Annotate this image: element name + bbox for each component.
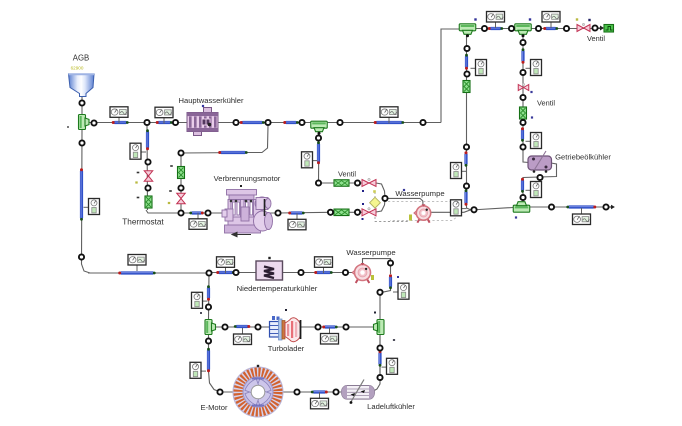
svg-text:Ventil: Ventil [338, 170, 356, 179]
sensor box S9 [323, 267, 325, 273]
svg-text:Ventil: Ventil [537, 99, 555, 108]
wire pinkX row1 out curve [376, 183, 385, 198]
node N9 [420, 120, 425, 125]
marker olive therm col2 [168, 202, 170, 204]
wire riser bottom to T2b left arm [467, 208, 514, 211]
svg-text:Verbrennungsmotor: Verbrennungsmotor [214, 174, 281, 183]
node N13 [564, 26, 569, 31]
valve green GV1 riser [463, 81, 470, 93]
node N29 [79, 140, 84, 145]
node N54 [355, 210, 360, 215]
marker tick right of T3 [393, 339, 395, 341]
svg-text:Wasserpumpe: Wasserpumpe [346, 248, 395, 257]
node N36 [377, 290, 382, 295]
svg-text:Getriebeölkühler: Getriebeölkühler [555, 153, 611, 162]
marker blue diamond T2 [529, 18, 531, 20]
svg-text:E-Motor: E-Motor [200, 403, 227, 412]
pipe PV11 turbo branch [207, 287, 210, 299]
sensor box S6 [581, 208, 583, 214]
pipe P11 NT row [316, 271, 331, 274]
heat exchanger Hauptwasserkuehler [204, 108, 212, 115]
svg-text:Niedertemperaturkühler: Niedertemperaturkühler [237, 284, 318, 293]
marker olive therm col1 [135, 181, 137, 183]
node N2 [91, 120, 96, 125]
wire turbo branch column x=208.5 [208, 273, 211, 319]
wire engine top branch horizontal y=152.5 [181, 152, 248, 155]
marker arrow therm col2 b [169, 190, 172, 192]
valve green GVH1 row1 [334, 180, 349, 187]
node N43 [377, 375, 382, 380]
sensor box S5 [550, 22, 552, 28]
sensor box S3 [388, 117, 390, 123]
svg-text:62900: 62900 [71, 66, 84, 71]
node N6 [265, 120, 270, 125]
node N15 [464, 46, 469, 51]
node N42 [377, 345, 382, 350]
node N49 [145, 185, 150, 190]
pipe P9 bottom feed [120, 271, 154, 274]
wire engine bottom line y=213 [146, 210, 277, 213]
marker blue square T2b [515, 216, 517, 218]
node N19 [471, 207, 476, 212]
junction T5 engine bypass [311, 121, 328, 128]
pipe PV5 right column [521, 129, 524, 140]
node N28 [603, 204, 608, 209]
pipe P4 main line [285, 121, 297, 124]
sensor box SV12 [201, 370, 206, 372]
marker blue diamond T1 [474, 18, 476, 20]
sensor box SV8 [141, 151, 146, 153]
wire thermostat column x=147.5 [146, 126, 149, 210]
node N58 [382, 196, 387, 201]
marker blue square right col b [531, 116, 533, 118]
marker dot turbo row [374, 312, 376, 314]
sensor box SV6 [526, 189, 531, 191]
node N33 [298, 270, 303, 275]
marker blue sq row1 [362, 190, 364, 192]
node N21 [520, 70, 525, 75]
wire T2b right arm line y=207 [530, 206, 608, 208]
wire pump1 outlet to riser junction [431, 210, 472, 213]
node N16 [464, 71, 469, 76]
node N44 [206, 338, 211, 343]
pump Wasserpumpe 1 [414, 210, 418, 216]
marker olive pump1 [409, 215, 412, 221]
node N25 [537, 175, 542, 180]
node N52 [275, 210, 280, 215]
wire valve row1 segment [319, 182, 362, 184]
sensor box S4 [495, 22, 497, 28]
node N56 [316, 180, 321, 185]
sensor box S1 [118, 117, 120, 123]
sensor box S14 [197, 213, 199, 219]
svg-text:Ventil: Ventil [587, 34, 605, 43]
node N23 [520, 120, 525, 125]
wire main top line y=123 [87, 122, 441, 124]
marker blue diamond ventil TR [588, 19, 590, 21]
sensor box SV5 [526, 140, 531, 142]
wire AGB tank to junction [81, 96, 83, 114]
marker blue sq ventil row1 [397, 276, 399, 278]
node N26 [520, 195, 525, 200]
pipe PV1 riser below T1 [465, 56, 468, 69]
marker diamond above NT-cooler [268, 257, 270, 259]
marker olive square ventil TR [576, 18, 578, 20]
node N31 [206, 270, 211, 275]
sensor box S11 [329, 328, 331, 334]
turbocharger Turbolader [270, 322, 280, 338]
marker olive diamond row1 [373, 190, 376, 193]
svg-text:Thermostat: Thermostat [122, 218, 164, 227]
pipe P13 turbo row [324, 325, 336, 328]
wire riser right from main line to T1 [441, 29, 460, 123]
sensor box SV2 [462, 170, 467, 172]
valve green GVH2 row2 [334, 209, 349, 216]
pipe PV6 oil cooler drop [521, 180, 524, 192]
wire T4 bottom stem [208, 334, 210, 349]
sensor box SV11 [203, 300, 208, 302]
node N39 [255, 324, 260, 329]
sensor box SV13 [382, 366, 387, 368]
node N57 [355, 180, 360, 185]
valve pink PX3 right column [518, 85, 523, 91]
sensor box S12 [319, 392, 321, 398]
wire oil cooler return loop [523, 163, 557, 204]
wire top-right header y=28.5 [475, 28, 602, 30]
pipe P2 main line [158, 121, 172, 124]
electric motor E-Motor [233, 367, 283, 417]
pipe P5 main line long [376, 121, 403, 124]
node N53 [328, 210, 333, 215]
signal dashed diamond top [374, 192, 376, 198]
svg-text:Wasserpumpe: Wasserpumpe [395, 189, 444, 198]
pipe PV13 cooler return riser [378, 352, 381, 365]
sensor box S7 [136, 265, 138, 271]
pipe PV8 thermostat column [146, 131, 149, 149]
pipe PV4 right column below T2 [521, 50, 524, 62]
junction T-AGB [79, 115, 86, 130]
node N20 [520, 40, 525, 45]
svg-text:Turbolader: Turbolader [268, 344, 305, 353]
controller yellow diamond [370, 197, 381, 208]
pipe PV12 e-motor branch [207, 350, 210, 371]
svg-text:Ladeluftkühler: Ladeluftkühler [367, 402, 415, 411]
junction T2 top-right [515, 24, 532, 31]
pipe PV2 riser [464, 153, 467, 165]
valve pink PXH1 row1 [362, 180, 369, 187]
node N41 [343, 324, 348, 329]
pipe P8 lower right line [568, 205, 595, 208]
wire bottom feed line y=273 [88, 272, 209, 274]
wire cooling column x=380 [373, 292, 381, 391]
node N11 [509, 26, 514, 31]
node N45 [217, 389, 222, 394]
node N1 [79, 100, 84, 105]
marker diamond above e-motor [257, 365, 259, 367]
node N8 [337, 120, 342, 125]
node N48 [145, 159, 150, 164]
marker dot above engine [240, 185, 242, 187]
wire merge node to pump1 top [385, 198, 423, 205]
valve green GV3 thermostat [145, 196, 152, 208]
wire T3 bottom stem x=380 [379, 334, 381, 378]
junction T3 cooling column [377, 320, 384, 335]
node N32 [233, 270, 238, 275]
node N17 [464, 144, 469, 149]
node N4 [173, 120, 178, 125]
heat exchanger Getriebeoelkuehler [528, 156, 552, 170]
wire T5 stem x=318.5 [318, 127, 321, 182]
wire T2 stem column x=523 upper [523, 33, 529, 163]
pump Wasserpumpe 2 [352, 270, 356, 276]
node N38 [222, 324, 227, 329]
node N5 [233, 120, 238, 125]
wire engine outlet row to valves [278, 211, 330, 214]
node N12 [536, 26, 541, 31]
valve green GV2 right column [520, 107, 527, 119]
junction T2b lower-right [513, 205, 530, 212]
marker blue sq row1b [362, 203, 364, 205]
engine Verbrennungsmotor [222, 190, 273, 234]
node N14 [592, 25, 597, 30]
pipe P15 engine inlet [191, 211, 202, 214]
node N24 [520, 144, 525, 149]
wire pinkX row2 out curve [376, 199, 385, 212]
node N3 [144, 120, 149, 125]
marker tick left of AGB-T [67, 126, 69, 127]
pipe P14 e-motor row [313, 390, 327, 393]
pipe PV7 AGB column long [80, 170, 83, 219]
sensor box SV1 [471, 67, 476, 69]
wire T1 stem column x=466.5 [466, 33, 468, 208]
sensor box S2 [163, 118, 165, 124]
signal dashed diamond to pump small box [375, 208, 408, 222]
junction T1 top-right [459, 24, 476, 31]
node N22 [520, 95, 525, 100]
heat exchanger Niedertemperaturkuehler [256, 261, 283, 280]
sensor box S8 [225, 267, 227, 273]
node N37 [206, 304, 211, 309]
wire valve row2 to merge node [349, 211, 362, 213]
node N10 [482, 26, 487, 31]
valve pink PXH2 row2 [362, 209, 369, 216]
wire pump2 outlet drop to node [382, 288, 391, 292]
valve pink PXH3 Ventil top-right [577, 25, 584, 32]
svg-text:AGB: AGB [73, 54, 89, 63]
pipe P7 top-right header [545, 27, 557, 30]
node N47 [333, 389, 338, 394]
node N55 [316, 135, 321, 140]
wire turbolader row y=327 [213, 326, 374, 328]
pipe PV9 engine bypass riser [317, 143, 320, 163]
sensor box SV7 [84, 206, 89, 208]
node N7 [299, 120, 304, 125]
wire pump2 top outlet [363, 259, 391, 274]
sensor box SV9 [313, 160, 318, 162]
sensor box S10 [242, 328, 244, 334]
marker arrow therm col1 a [137, 172, 140, 174]
node N46 [294, 389, 299, 394]
pipe P16 engine outlet [290, 211, 303, 214]
marker tick below T4 [200, 312, 202, 314]
wire AGB left column x=81.5 [82, 130, 91, 273]
sensor box SV10 [393, 291, 398, 293]
sensor box SV4 [526, 67, 531, 69]
sensor box SV3 [462, 208, 467, 210]
node N18 [464, 183, 469, 188]
signal dashed loop to sensor box [388, 202, 457, 221]
node N35 [388, 260, 393, 265]
valve pink PX2 bypass [177, 193, 186, 198]
marker blue square right col a [530, 91, 532, 93]
node N51 [205, 210, 210, 215]
pipe P17 engine top branch [220, 151, 246, 154]
node N50 [178, 210, 183, 215]
junction T4 turbo branch [205, 320, 212, 335]
pipe PV10 pump2 outlet [389, 276, 392, 288]
arrow line end lower-right [609, 206, 614, 209]
pipe P1 main line [114, 121, 128, 124]
pipe P3 main line [242, 121, 264, 124]
node N40 [315, 324, 320, 329]
node N30 [79, 254, 84, 259]
marker blue sq pump2 [403, 189, 405, 191]
marker blue diamond above radiator [202, 105, 204, 107]
heat exchanger Ladeluftkuehler [342, 386, 375, 400]
pipe P10 NT row [218, 271, 233, 274]
node N34 [343, 270, 348, 275]
valve pink PX1 thermostat [144, 171, 153, 176]
wire NT-cooler row y=272.3 [209, 272, 356, 274]
marker olive pump2 [371, 275, 374, 280]
node N59 [178, 150, 183, 155]
source block green (Ventil setpoint) [598, 26, 604, 29]
pipe P6 top-right header [490, 27, 502, 30]
sensor box S13 [296, 213, 298, 219]
marker blue sq row2 [362, 218, 364, 220]
wire engine top branch riser to main line [247, 126, 268, 153]
wire e-motor row y=392 [220, 391, 346, 393]
node N27 [549, 204, 554, 209]
wire thermostat bypass column x=181 [180, 153, 182, 213]
node N60 [178, 185, 183, 190]
pipe P12 turbo row [236, 325, 249, 328]
marker arrow therm col1 b [137, 197, 140, 199]
svg-text:Hauptwasserkühler: Hauptwasserkühler [179, 96, 244, 105]
pipe PV3 riser lower [464, 191, 467, 204]
valve green GV4 bypass [178, 167, 185, 179]
marker dot above turbo [285, 309, 287, 311]
wire e-motor feed curve [209, 371, 221, 392]
marker arrow therm col2 a [170, 165, 173, 167]
